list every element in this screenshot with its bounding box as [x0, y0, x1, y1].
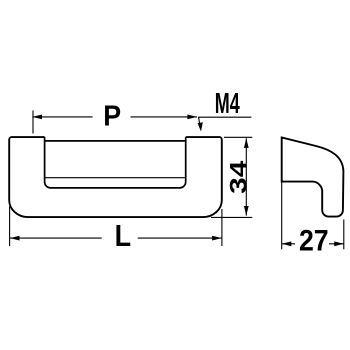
svg-text:34: 34 — [225, 161, 252, 194]
34 dimension top arrow — [244, 138, 249, 148]
L dimension extension line left — [9, 206, 11, 246]
handle front view recess inner back line — [45, 177, 185, 179]
27 dimension extension line right — [343, 220, 345, 250]
handle front view recess walls and floor — [45, 137, 186, 188]
svg-text:M4: M4 — [215, 88, 240, 120]
27 dimension left arrow — [282, 241, 292, 246]
svg-text:L: L — [115, 220, 131, 254]
27 dimension line — [282, 243, 344, 245]
L dimension left arrow — [10, 236, 20, 241]
P dimension right arrow — [187, 115, 197, 120]
M4 leader arrow — [198, 122, 203, 131]
L dimension line — [10, 237, 222, 239]
34 dimension line — [245, 138, 247, 215]
handle front view grip bar top edge — [45, 140, 186, 142]
M4 leader line — [199, 117, 252, 125]
P dimension line — [32, 116, 197, 118]
P dimension left arrow — [32, 115, 42, 120]
svg-text:27: 27 — [299, 224, 329, 258]
handle side view profile — [282, 138, 344, 217]
P dimension extension line left — [32, 111, 34, 134]
27 dimension extension line left — [281, 182, 283, 250]
34 dimension extension line top — [224, 136, 252, 138]
34 dimension bottom arrow — [244, 206, 249, 216]
27 dimension right arrow — [334, 241, 344, 246]
svg-text:P: P — [103, 100, 121, 132]
34 dimension extension line bottom — [211, 216, 252, 218]
L dimension extension line right — [221, 209, 223, 246]
L dimension right arrow — [212, 236, 222, 241]
handle front view outer outline — [9, 137, 222, 217]
